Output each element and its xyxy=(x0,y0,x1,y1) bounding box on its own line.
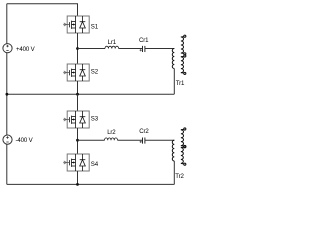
switch S4 (MOSFET with body diode) xyxy=(63,154,89,171)
transformer Tr1 secondary winding lower xyxy=(181,55,186,74)
wire: left rail upper segment xyxy=(6,4,8,44)
wire: S3 source to node B to S4 drain xyxy=(77,128,79,154)
switch S2 (MOSFET with body diode) xyxy=(63,64,89,81)
capacitor Cr1 xyxy=(143,46,145,52)
wire: mid rail to S3 drain xyxy=(77,94,79,111)
polarity + of Cr2 xyxy=(140,141,142,143)
svg-text:S4: S4 xyxy=(91,161,99,168)
inductor Lr1 xyxy=(105,46,119,48)
svg-text:S1: S1 xyxy=(91,23,99,30)
wire: node B to Lr2 xyxy=(78,139,105,141)
svg-text:+400 V: +400 V xyxy=(16,46,36,53)
capacitor Cr2 xyxy=(143,138,145,144)
wire: S2 source to mid rail xyxy=(77,81,79,94)
wire: Lr1 to Cr1 xyxy=(119,48,143,50)
svg-text:-400 V: -400 V xyxy=(16,137,34,144)
transformer Tr1 primary winding xyxy=(172,49,174,69)
transformer Tr2 primary winding xyxy=(172,140,174,161)
svg-text:Lr2: Lr2 xyxy=(107,129,116,136)
voltage source -400 V xyxy=(3,135,12,144)
switch S1 (MOSFET with body diode) xyxy=(63,16,89,33)
inductor Lr2 xyxy=(105,138,118,140)
junction: bottom rail / S4 leg xyxy=(76,183,79,186)
svg-text:Lr1: Lr1 xyxy=(108,39,117,46)
wire: Cr2 to Tr2 primary xyxy=(145,139,174,141)
junction: left rail / mid rail xyxy=(6,93,9,96)
wire: Tr2 primary return to bottom rail xyxy=(173,161,175,184)
voltage source +400 V xyxy=(3,44,12,53)
wire: left rail middle segment xyxy=(6,53,8,135)
wire: top rail xyxy=(7,4,78,16)
wire: Lr2 to Cr2 xyxy=(118,139,143,141)
wire: bottom rail xyxy=(7,183,175,185)
junction: mid rail / switch leg xyxy=(76,93,79,96)
transformer Tr2 secondary winding upper xyxy=(181,128,186,148)
wire: Cr1 to Tr1 primary xyxy=(145,48,174,50)
svg-text:S3: S3 xyxy=(91,116,99,123)
wire: mid rail xyxy=(7,93,175,95)
svg-text:Tr1: Tr1 xyxy=(176,80,185,87)
transformer Tr2 secondary winding lower xyxy=(181,146,186,166)
wire: left rail lower segment xyxy=(6,144,8,184)
wire: S1 source to node A to S2 drain xyxy=(77,33,79,64)
junction node B xyxy=(76,139,79,142)
switch S3 (MOSFET with body diode) xyxy=(63,111,89,128)
junction node A xyxy=(76,47,79,50)
svg-text:Cr1: Cr1 xyxy=(139,37,149,44)
wire: Tr1 primary return to mid rail xyxy=(173,69,175,95)
svg-text:Tr2: Tr2 xyxy=(175,173,184,180)
polarity + of Cr1 xyxy=(140,49,142,51)
svg-text:S2: S2 xyxy=(91,69,99,76)
svg-text:Cr2: Cr2 xyxy=(139,128,149,135)
transformer Tr1 secondary winding upper xyxy=(181,35,186,55)
wire: node A to Lr1 xyxy=(78,48,106,50)
wire: S4 source to bottom rail xyxy=(77,171,79,184)
